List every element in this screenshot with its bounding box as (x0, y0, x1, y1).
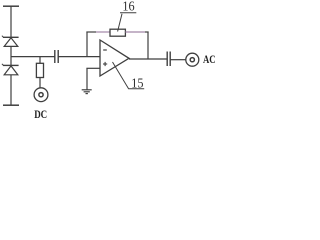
AC output terminal (186, 53, 199, 66)
wire to resistor (39, 57, 41, 64)
wire (10, 46, 12, 65)
diode D1 (zener) (2, 36, 19, 47)
svg-text:AC: AC (203, 52, 216, 66)
resistor R (bias) (36, 63, 43, 77)
wire noninverting input (86, 67, 100, 69)
leader line 16 (118, 14, 122, 32)
wire (10, 6, 12, 37)
DC source terminal (34, 88, 48, 102)
wire inverting node vertical (86, 32, 88, 57)
capacitor C2 (167, 52, 170, 67)
wire feedback right vertical (147, 32, 149, 60)
wire feedback (purple tint) (96, 31, 110, 33)
terminal bar bottom-left (3, 104, 19, 106)
wire output (129, 58, 167, 60)
wire feedback left (86, 31, 96, 33)
capacitor C1 (55, 50, 58, 63)
wire node A horizontal (11, 56, 55, 58)
wire (58, 56, 100, 58)
wire (145, 31, 149, 33)
wire to ground (86, 68, 88, 90)
wire (10, 75, 12, 105)
svg-text:15: 15 (131, 77, 143, 92)
ground (82, 90, 92, 94)
wire (170, 59, 186, 61)
underline 16 (120, 12, 136, 14)
diode D2 (zener) (2, 64, 19, 75)
leader line 15 (113, 62, 145, 89)
wire (39, 78, 41, 89)
op-amp U1 (100, 40, 129, 76)
svg-text:16: 16 (122, 0, 134, 15)
wire feedback right (purple tint) (125, 31, 145, 33)
terminal bar top-left (3, 5, 19, 7)
resistor R16 feedback (110, 29, 125, 36)
svg-text:DC: DC (34, 107, 47, 120)
